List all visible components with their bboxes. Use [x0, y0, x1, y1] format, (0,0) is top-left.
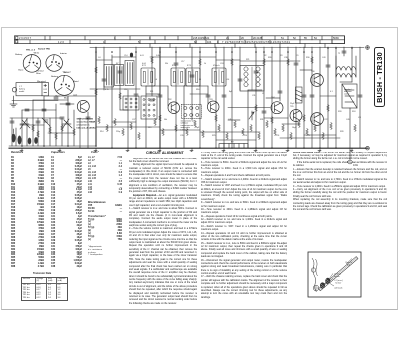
- capacitor C6: [254, 71, 258, 73]
- ground: [20, 148, 23, 151]
- resistor R47: [303, 114, 306, 121]
- resistor R28: [290, 132, 293, 139]
- trimmer C2: [42, 118, 50, 126]
- wire: a.g.c. line: [12, 100, 58, 102]
- junction: [199, 51, 201, 53]
- coils table: [88, 157, 122, 195]
- wire: [320, 95, 336, 97]
- junction: [67, 145, 69, 147]
- ground: [222, 148, 225, 151]
- resistor R38: [151, 56, 154, 63]
- wire: [48, 132, 74, 134]
- capacitor C12: [25, 109, 29, 111]
- resistor R12: [138, 132, 141, 139]
- transistor TR7: [311, 113, 324, 126]
- wire: strip drop: [214, 44, 216, 48]
- junction: [287, 147, 289, 149]
- junction: [327, 47, 329, 49]
- wire: [216, 59, 240, 61]
- junction: [319, 147, 321, 149]
- wire: [190, 93, 208, 95]
- wire: [311, 47, 313, 148]
- resistor R10: [122, 128, 125, 135]
- transistor base diagram TR6: [46, 55, 63, 72]
- resistor table: [11, 157, 44, 269]
- miscellaneous table: [88, 205, 122, 214]
- capacitor C3: [150, 99, 154, 101]
- resistor R15: [175, 124, 178, 131]
- wire: [216, 139, 256, 141]
- resistor R4: [55, 132, 58, 139]
- ground: [286, 148, 289, 151]
- wire: [21, 110, 23, 146]
- resistor R21: [234, 120, 237, 127]
- ground: [350, 148, 353, 151]
- m.w. coil L2: [320, 282, 325, 288]
- wire: [119, 47, 121, 110]
- wire: chassis negative rail: [9, 147, 368, 149]
- wire: [79, 118, 81, 148]
- junction: [159, 147, 161, 149]
- wire: [304, 134, 336, 136]
- resistor R41: [215, 114, 218, 121]
- resistor R22: [242, 128, 245, 135]
- wire: [228, 119, 240, 121]
- wire: strip drop: [169, 44, 171, 48]
- wire: [159, 47, 161, 148]
- waveband switch S1 contact bank: [123, 96, 139, 110]
- resistor R31: [314, 124, 317, 131]
- ferrite rod drawing frame: [308, 252, 361, 297]
- tuning gang C1: [20, 119, 30, 129]
- wire: [167, 86, 169, 106]
- aerial coil L1: [12, 129, 16, 143]
- junction: [111, 51, 113, 53]
- wire: [61, 118, 63, 146]
- wire: [146, 85, 168, 87]
- resistor R42: [231, 58, 234, 65]
- electrolytic C13: [130, 53, 133, 58]
- wire: strip drop: [254, 44, 256, 48]
- junction: [303, 51, 305, 53]
- wire: [135, 47, 137, 148]
- l.w. coil L4: [325, 278, 330, 284]
- wire: [223, 47, 225, 148]
- junction: [231, 51, 233, 53]
- wire: [103, 47, 105, 90]
- wire: h.t. positive rail: [90, 47, 300, 49]
- ground: [58, 148, 61, 151]
- transistor base diagram TR4,7: [54, 75, 74, 95]
- wire: [90, 88, 140, 90]
- wire: [266, 97, 280, 99]
- transistor TR2: [168, 102, 180, 114]
- table notes: [88, 246, 126, 257]
- ferrite rod: [319, 257, 359, 291]
- capacitor C1: [118, 71, 122, 73]
- capacitor C22: [278, 91, 282, 93]
- wire: [207, 86, 209, 104]
- electrolytic C48: [28, 138, 32, 145]
- resistor R32: [322, 132, 325, 139]
- wire: [67, 96, 69, 146]
- battery negative terminal: [366, 146, 370, 150]
- wire: [37, 118, 39, 146]
- transistor data table: [33, 272, 51, 275]
- leader lines: [325, 259, 352, 287]
- resistor R20: [226, 132, 229, 139]
- junction: [335, 147, 337, 149]
- ground: [190, 148, 193, 151]
- dial bracket: [311, 258, 319, 292]
- junction: [199, 147, 201, 149]
- battery pack box: [16, 83, 49, 96]
- resistor R29: [298, 120, 301, 127]
- wire: [282, 123, 300, 125]
- ground: [318, 148, 321, 151]
- wire: strip drop: [324, 44, 326, 48]
- output transformer T2: [336, 56, 356, 77]
- wire: [20, 124, 44, 126]
- transistor TR1: [77, 100, 89, 112]
- resistor R30: [306, 128, 309, 135]
- battery positive terminal: [366, 46, 370, 50]
- wire: [335, 47, 337, 148]
- ground: [126, 148, 129, 151]
- wire: [287, 47, 289, 148]
- capacitor C5: [222, 95, 226, 97]
- capacitor C11: [358, 95, 362, 97]
- wire: [96, 59, 112, 61]
- resistor R23: [250, 124, 253, 131]
- wire: [11, 118, 13, 146]
- resistor R39: [159, 114, 162, 121]
- junction: [351, 47, 353, 49]
- resistor R36: [95, 88, 98, 95]
- wire: [183, 86, 185, 148]
- potentiometer VR2: [249, 111, 254, 120]
- wire: output stage rail: [300, 47, 364, 49]
- resistor R35: [95, 66, 98, 73]
- junction: [135, 51, 137, 53]
- wire: [55, 104, 57, 146]
- wire: [239, 47, 241, 90]
- junction: [95, 51, 97, 53]
- resistor R2: [37, 130, 40, 137]
- wire: strip drop: [279, 44, 281, 48]
- wire: [351, 47, 353, 82]
- wire: [280, 137, 340, 139]
- wire: [49, 118, 51, 146]
- volume control VR1: [10, 88, 17, 107]
- waveband switch S2 contact bank: [141, 96, 157, 119]
- speaker note: [344, 89, 352, 95]
- resistor R8: [106, 124, 109, 131]
- oscillator coil L8: [115, 65, 124, 86]
- capacitor C24: [342, 51, 346, 53]
- wire bus: [150, 56, 216, 58]
- wire: [160, 129, 200, 131]
- wire: [120, 109, 128, 111]
- driver transformer T1: [240, 66, 264, 92]
- capacitor C16: [10, 121, 14, 123]
- capacitor table: [51, 157, 82, 269]
- capacitor C13: [42, 109, 46, 111]
- i.f. transformer IFT2: [171, 68, 185, 86]
- resistor R3: [49, 126, 52, 133]
- junction: [287, 51, 289, 53]
- wire: [279, 47, 281, 101]
- wire: [255, 47, 257, 148]
- thermistor R23: [296, 87, 303, 103]
- wire: [10, 117, 60, 119]
- wire: [112, 121, 136, 123]
- junction: [43, 145, 45, 147]
- junction: [255, 147, 257, 149]
- circuit alignment column 2: [201, 152, 287, 304]
- transistor TR3: [207, 101, 219, 113]
- wire: [264, 117, 288, 119]
- junction: [271, 51, 273, 53]
- resistor R6: [73, 128, 76, 135]
- circuit alignment column 3: [293, 152, 387, 251]
- capacitor C9: [310, 95, 314, 97]
- junction: [215, 51, 217, 53]
- resistor R16: [186, 128, 189, 135]
- transistor TR5: [290, 110, 302, 122]
- capacitor C20: [174, 63, 178, 65]
- wire: [199, 47, 201, 148]
- jack tail: [347, 108, 358, 167]
- capacitor C18: [60, 117, 64, 119]
- svg-text:coil leads: coil leads: [334, 288, 342, 290]
- transistor TR6: [311, 74, 324, 87]
- junction: [215, 147, 217, 149]
- wire: mixer feed: [95, 48, 97, 147]
- electrolytic C50: [34, 137, 38, 144]
- capacitor C2: [134, 94, 138, 96]
- wire: strip drop: [304, 44, 306, 48]
- wire: [248, 89, 262, 91]
- junction: [159, 51, 161, 53]
- wire bus: [240, 60, 300, 62]
- dial tag strip: [15, 36, 345, 44]
- transistor TR4: [271, 102, 283, 114]
- junction: [335, 47, 337, 49]
- oscillator coil L7: [104, 65, 114, 88]
- aerial coil L2: [18, 136, 22, 145]
- wire: [95, 47, 97, 146]
- junction: [175, 51, 177, 53]
- wire: main h.t. feed: [159, 48, 161, 149]
- i.f. transformer IFT3: [186, 68, 200, 86]
- ground: [254, 148, 257, 151]
- table headers: [11, 151, 23, 154]
- transistor base diagram TR1,2,3: [23, 55, 41, 73]
- wire: [215, 47, 217, 148]
- wire: [60, 103, 74, 105]
- junction: [21, 145, 23, 147]
- resistor R33: [330, 122, 333, 129]
- wire: TR4 base feed: [228, 107, 270, 109]
- capacitor C25: [86, 117, 90, 119]
- resistor R1: [32, 124, 35, 131]
- wire: [247, 90, 249, 148]
- battery 9V: [219, 142, 248, 149]
- junction: [311, 51, 313, 53]
- resistor R17: [194, 120, 197, 127]
- capacitor C17: [36, 121, 40, 123]
- resistor R14: [162, 128, 165, 135]
- wire: [200, 131, 260, 133]
- svg-text:former: former: [334, 276, 340, 278]
- wire: [87, 112, 89, 148]
- model label BUSH - TR130: [374, 47, 385, 107]
- wire: [22, 109, 56, 111]
- capacitor C27: [206, 95, 210, 97]
- transformers table: [88, 219, 122, 243]
- wire: second negative rail segment: [9, 145, 96, 147]
- wire: [319, 47, 321, 148]
- capacitor C7: [262, 111, 266, 113]
- wire: [43, 96, 45, 146]
- resistor R18: [202, 130, 205, 137]
- ground: [94, 148, 97, 151]
- svg-text:former: former: [336, 282, 342, 284]
- resistor R27: [282, 124, 285, 131]
- wire: [340, 81, 352, 83]
- wire: [184, 85, 208, 87]
- junction: [271, 147, 273, 149]
- resistor R40: [199, 58, 202, 65]
- capacitor C10: [326, 65, 330, 67]
- wire: strip drop: [149, 44, 151, 48]
- capacitor C26: [158, 95, 162, 97]
- resistor R7: [98, 116, 101, 123]
- wire: [96, 126, 160, 128]
- capacitor C19: [102, 79, 106, 81]
- wire: strip drop: [234, 44, 236, 48]
- wire: [33, 99, 68, 101]
- wire: [343, 47, 345, 56]
- loudspeaker and earphone socket: [342, 84, 357, 108]
- wire: strip drop: [189, 44, 191, 48]
- resistor R13: [154, 118, 157, 125]
- wire: [44, 95, 96, 97]
- tuning gang C3: [62, 119, 72, 129]
- i.f. transformer IFT4: [212, 68, 226, 86]
- wire: [300, 69, 312, 71]
- junction: [231, 147, 233, 149]
- junction: [135, 147, 137, 149]
- capacitor C23: [294, 63, 298, 65]
- ground: [158, 148, 161, 151]
- resistor R19: [218, 124, 221, 131]
- wire: [327, 47, 329, 148]
- capacitor C14: [54, 97, 58, 99]
- resistor R34: [354, 124, 357, 131]
- capacitor C8: [302, 95, 306, 97]
- resistor R45: [271, 116, 274, 123]
- wire: [359, 47, 361, 148]
- switch drum note: [77, 119, 96, 130]
- capacitor C21: [238, 79, 242, 81]
- resistor R44: [263, 58, 266, 65]
- wire: [263, 47, 265, 148]
- junction: [95, 145, 97, 147]
- resistor R9: [114, 118, 117, 125]
- resistor R43: [255, 104, 258, 111]
- wire: [111, 55, 113, 148]
- junction: [111, 147, 113, 149]
- wire: [145, 86, 147, 148]
- resistor R48: [311, 56, 314, 63]
- circuit alignment column 1: [146, 151, 184, 155]
- resistor R46: [287, 58, 290, 65]
- resistor R26: [274, 128, 277, 135]
- wire: [32, 100, 34, 146]
- wire: [231, 47, 233, 148]
- resistor R5: [61, 124, 64, 131]
- capacitor C4: [190, 75, 194, 77]
- transistor holder (dashed): [181, 105, 201, 119]
- resistor R24: [258, 132, 261, 139]
- holder note: [181, 120, 196, 132]
- junction: [255, 51, 257, 53]
- capacitor C15: [66, 103, 70, 105]
- wire: [175, 47, 177, 148]
- wire: [73, 110, 75, 146]
- wire: [146, 93, 160, 95]
- oscillator coil L10: [125, 61, 134, 86]
- junction: [303, 147, 305, 149]
- resistor R37: [119, 92, 122, 99]
- wire: [112, 56, 136, 58]
- wire: [127, 90, 129, 148]
- wire: [26, 118, 28, 146]
- junction: [263, 51, 265, 53]
- resistor R25: [266, 120, 269, 127]
- wire: [295, 47, 297, 148]
- wire: [271, 47, 273, 148]
- wire: [151, 47, 153, 96]
- resistor R49: [327, 104, 330, 111]
- i.f. transformer IFT1: [141, 68, 155, 86]
- wire: [303, 47, 305, 148]
- resistor R11: [130, 122, 133, 129]
- svg-text:dial: dial: [347, 264, 351, 266]
- wire: [15, 128, 17, 146]
- wire: [191, 47, 193, 120]
